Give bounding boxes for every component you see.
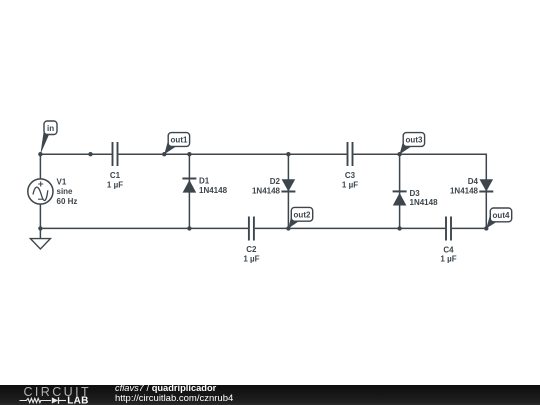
wire bottom segment right (C4 right plate to out4 node) [452,227,486,229]
flag out4 [486,208,511,228]
wire V1 top stub [39,154,41,179]
svg-text:C3: C3 [345,171,356,180]
diode D3 [393,191,407,205]
svg-text:D4: D4 [468,177,479,186]
svg-text:out4: out4 [493,211,510,220]
svg-text:1 µF: 1 µF [243,255,259,264]
svg-text:C4: C4 [443,245,454,254]
V1 value label [57,177,78,206]
svg-text:C1: C1 [110,171,121,180]
D1 value label [199,176,228,194]
svg-text:LAB: LAB [67,396,88,405]
wire bottom segment left (ground node to C2 left plate) [40,227,248,229]
wire top segment right (C3 right plate to top-right corner) [353,153,487,155]
svg-text:D1: D1 [199,176,210,185]
node dot V1 top [38,152,42,156]
svg-text:in: in [47,124,54,133]
flag out3 [400,133,425,155]
svg-text:1N4148: 1N4148 [450,187,479,196]
wire D3 branch vertical [399,154,401,228]
node dot D1 bottom [187,226,191,230]
svg-text:1N4148: 1N4148 [252,187,281,196]
node dot D2 top [286,152,290,156]
svg-text:1 µF: 1 µF [342,180,358,189]
D2 value label [252,177,281,195]
svg-text:sine: sine [57,187,74,196]
node dot out1 anchor [162,152,166,156]
node dot top wire joint [88,152,92,156]
wire D1 branch vertical [188,154,190,228]
wire top segment middle (C1 right plate to C3 left plate) [118,153,346,155]
svg-text:60 Hz: 60 Hz [57,197,78,206]
svg-text:1N4148: 1N4148 [410,198,439,207]
D4 value label [450,177,479,195]
C1 value label [107,171,123,190]
node dot D3 top / out3 anchor [397,152,401,156]
svg-text:1 µF: 1 µF [107,180,123,189]
node dot ground [38,226,42,230]
svg-text:out3: out3 [406,136,423,145]
flag out1 [164,133,189,155]
C4 value label [440,245,456,263]
wire V1 bottom stub to ground [39,204,41,239]
D3 value label [410,189,439,207]
footer bar [0,385,540,405]
capacitor C3 [348,142,353,166]
svg-text:http://circuitlab.com/cznrub4: http://circuitlab.com/cznrub4 [115,393,233,404]
svg-text:C2: C2 [246,245,257,254]
diode D4 [479,179,493,191]
wire bottom segment middle (C2 right plate to C4 left plate) [255,227,445,229]
capacitor C2 [249,217,254,241]
flag in [40,121,57,154]
node dot D4 bottom / out4 anchor [484,226,488,230]
diode D2 [281,179,295,191]
node dot D1 top [187,152,191,156]
capacitor C4 [446,217,451,241]
svg-text:D2: D2 [270,177,281,186]
wire right vertical through D4 [485,154,487,229]
svg-text:cflavs7 / quadriplicador: cflavs7 / quadriplicador [115,383,217,393]
svg-text:out2: out2 [294,211,311,220]
footer logo resistor + diode symbol [20,397,67,404]
wire top segment left (V1 top to C1 left plate) [40,153,112,155]
voltage source V1 [28,179,53,204]
ground [30,239,50,249]
svg-text:V1: V1 [57,177,67,186]
diode D1 [182,179,196,193]
svg-text:out1: out1 [171,136,188,145]
node dot D3 bottom [397,226,401,230]
svg-text:1 µF: 1 µF [440,255,456,264]
svg-text:1N4148: 1N4148 [199,186,228,195]
wire D2 branch vertical [287,154,289,228]
node dot D2 bottom / out2 anchor [286,226,290,230]
C3 value label [342,171,358,190]
svg-text:D3: D3 [410,189,421,198]
flag out2 [288,207,312,228]
C2 value label [243,245,259,264]
capacitor C1 [113,142,118,166]
